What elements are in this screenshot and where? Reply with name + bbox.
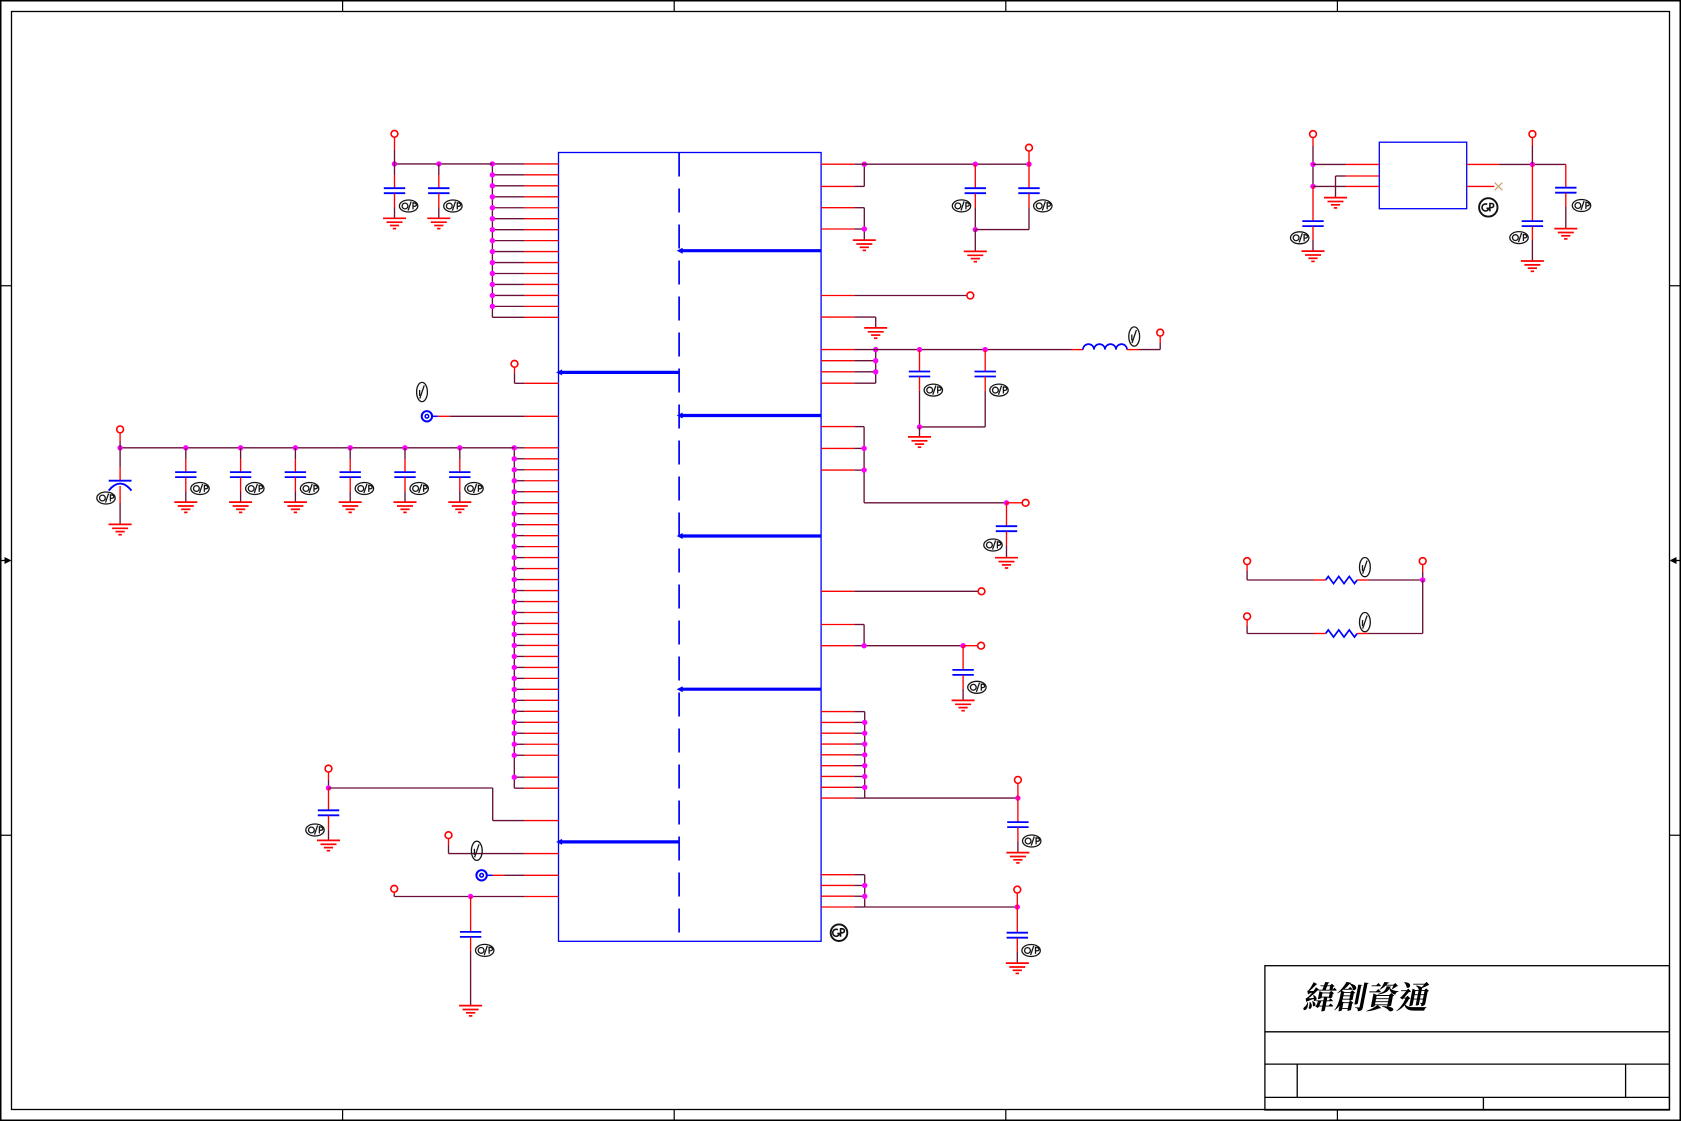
terminal P16 [1529,131,1536,138]
wire VCC3 rail [854,163,1029,165]
junction C3j [873,369,878,374]
terminal P12 [978,642,985,649]
terminal P18 [1419,558,1426,565]
IC U1 section divider [678,153,680,942]
wire U2 input pin 1 [1313,163,1379,165]
terminal P5 [445,832,452,839]
capacitor C17 [952,646,973,701]
label C22 [1572,200,1590,212]
wire C14 gnd drop [919,427,921,437]
capacitor C3 (polarized) [109,448,132,525]
ground C1 [383,218,406,228]
junction D1 [861,446,866,451]
terminal P11 [978,588,985,595]
wire bus right H [854,875,1017,907]
wire C12 gnd drop [974,230,976,252]
terminal P14 [1014,886,1021,893]
label C18 [1022,835,1040,847]
wire P5 to pin [449,839,525,854]
ground C14 [908,437,931,447]
capacitor C22 [1555,164,1576,228]
junction C14 gnd [917,424,922,429]
label C1 [399,200,417,212]
wire VCC2 rail [120,447,514,449]
IC U1 body [559,153,822,942]
junction C1j [873,347,878,352]
junction A1 [862,162,867,167]
terminal P15 [1310,131,1317,138]
IC U1 left pin y875 [525,874,559,876]
wire U2 NC pin [1467,185,1495,187]
wire P7 drop [1028,151,1030,164]
wire net A to pin [329,788,525,821]
capacitor C6 [285,448,306,502]
junction P4 [326,785,331,790]
ground C10 [317,840,340,850]
IC U1 right pin y317 [821,316,854,318]
resistor R2 [1326,630,1357,637]
capacitor C8 [394,448,415,502]
ground net C [864,328,887,338]
junction G-C18 [1015,795,1020,800]
capacitor C5 [230,448,251,502]
wire net B [854,295,967,297]
label C21 [1510,232,1528,244]
terminal P8 [967,292,974,299]
ground C7 [339,502,362,512]
wire C16 to P10 [1007,502,1023,504]
ground C19 [1006,963,1029,973]
IC U1 left pin y896 [525,896,559,898]
ground U2 [1324,198,1347,208]
wire C18 to P13 [1017,783,1019,798]
ground C4 [174,502,197,512]
IC U1 internal bus line 3 (right col) [677,413,821,419]
capacitor C7 [340,448,361,502]
terminal P2 [117,426,124,433]
label GP2 [1479,198,1497,216]
frame center arrow right [1670,557,1681,564]
ground C8 [394,502,417,512]
wire U2 output [1467,163,1566,165]
label C17 [968,681,986,693]
junction A2 [862,226,867,231]
label C2 [444,200,462,212]
IC U1 right pins group F [821,625,854,646]
wire VCC4 rail [854,349,1083,351]
terminal P6 [391,885,398,892]
junction C12-C13 [973,227,978,232]
wire P17 to R1 [1247,565,1326,581]
label L1 [1129,327,1140,346]
IC U1 right pins group H [821,875,854,907]
IC U1 right pins group A [821,164,854,229]
IC U1 left pin block 1 stubs [492,164,558,317]
junctions left block 2 [512,445,517,780]
wire C12-C13 bottom [975,229,1029,231]
junction C2j [873,358,878,363]
wire TG1 to pin [432,415,524,417]
frame center arrow left [1,557,12,564]
label GP1 [831,924,848,941]
wire C17 to P12 [963,645,978,647]
capacitor C20 [1302,186,1323,251]
label C14 [924,384,942,396]
junction P6-C11 [468,894,473,899]
IC U1 left pin y416 [525,415,559,417]
junction U2 in1 [1310,162,1315,167]
label C15 [990,384,1008,396]
junction D-C16 [1004,500,1009,505]
label C12 [952,200,970,212]
company name text [1303,982,1432,1011]
label C19 [1022,945,1040,957]
junction F1 [861,643,866,648]
capacitor C13 [1018,164,1039,229]
junction VCC3-P7 [1026,162,1031,167]
IC U1 internal bus line 6 (left col) [556,839,679,845]
inductor L1 [1083,344,1127,349]
junction VCC3-C12 [973,162,978,167]
wire bus right D [854,427,1006,503]
IC U1 right pin y295 [821,295,854,297]
IC U1 internal bus line 4 (right col) [677,533,821,539]
junction H-C19 [1015,904,1020,909]
wire P19 to R2 [1247,620,1326,634]
regulator U2 body [1379,142,1466,209]
terminal P17 [1244,558,1251,565]
wire net E [854,590,978,592]
junction VCC4-C15 [983,347,988,352]
title block outline [1265,966,1670,1110]
junction R node [1420,577,1425,582]
IC U1 left pin block 2 stubs [514,448,558,788]
label C20 [1291,232,1309,244]
label C8 [410,483,428,495]
junction VCC4-C14 [917,347,922,352]
IC U1 right pins group C [821,350,854,384]
capacitor C4 [175,448,196,502]
wire P15 drop [1312,138,1314,187]
ground C11 [459,1006,482,1016]
resistor R1 [1326,576,1357,583]
junctions left block 1 [490,161,495,309]
junction H1 [862,883,867,888]
IC U1 internal bus line 2 (left col) [556,369,679,375]
frame ticks left [1,286,12,836]
IC U1 left pin y383 [525,382,559,384]
capacitor C2 [428,164,449,218]
label R2 [1360,613,1371,632]
wire VCC1 rail [395,163,493,165]
no-connect X [1495,183,1503,191]
wire P1 drop [394,137,396,164]
junction VCC1-C1 [392,161,397,166]
wire bus right C [854,350,875,384]
frame ticks top [343,1,1338,12]
wire node drop [1422,580,1424,634]
ground C18 [1006,853,1029,863]
test point TG2 [476,870,486,880]
label C5 [246,483,264,495]
wire R2 to node [1357,633,1423,635]
terminal P9 [1157,329,1164,336]
wire net C to gnd [854,317,875,328]
wire P4 drop [328,772,330,788]
wire bus right A [854,164,864,240]
frame ticks bottom [343,1110,1338,1121]
wire P16 drop [1531,138,1533,165]
wire R1 to node [1357,579,1423,581]
ground C9 [448,502,471,512]
ground C17 [952,700,975,710]
wire C14-C15 bottom [920,426,986,428]
capacitor C10 [318,788,339,840]
capacitor C21 [1522,164,1543,261]
terminal P3 [511,360,518,367]
ground C20 [1302,251,1325,261]
terminal P10 [1022,499,1029,506]
IC U1 right pin y591 [821,590,854,592]
wire C19 to P14 [1016,893,1018,907]
label R1 [1360,558,1371,577]
terminal P19 [1244,613,1251,620]
label C10 [306,824,324,836]
junction F-C17 [960,643,965,648]
wire L1 to P9 [1127,336,1160,350]
label C9 [465,483,483,495]
test point TG1 [422,411,432,421]
label C3 [97,492,115,504]
junction U2 out [1530,162,1535,167]
wire bus left block 1 [491,164,493,317]
wire bus right F [854,625,963,646]
capacitor C12 [965,164,986,229]
label C11 [476,944,494,956]
IC U1 left pin y853 [525,853,559,855]
label C6 [300,483,318,495]
label TG1 [417,382,428,401]
label C7 [355,483,373,495]
wire bus right G [854,712,1018,799]
wire P2 drop [119,433,121,448]
junction D2 [861,467,866,472]
IC U1 left pin y820 [525,820,559,822]
junction VCC1-C2 [436,161,441,166]
capacitor C18 [1007,798,1028,853]
label C4 [191,483,209,495]
capacitor C19 [1007,907,1028,963]
wire TG2 to pin [487,874,525,876]
IC U1 internal bus line 1 (right col) [677,248,821,254]
ground C12 [964,251,987,261]
capacitor C9 [449,448,470,502]
capacitor C1 [384,164,405,218]
junctions right G [862,720,867,790]
IC U1 right pins group G [821,712,854,799]
wire U2 gnd pin 2 [1336,176,1380,198]
label C13 [1034,200,1052,212]
junction H2 [862,894,867,899]
terminal P13 [1015,777,1022,784]
ground C21 [1521,261,1544,271]
ground bus A [853,240,876,250]
ground C2 [427,218,450,228]
IC U1 right pins group D [821,427,854,471]
ground C16 [995,558,1018,568]
wire bus left block 2 [513,448,515,788]
label C16 [984,539,1002,551]
wire P6 to pin [394,892,524,896]
frame ticks right [1670,286,1681,836]
capacitor C11 [460,897,481,1006]
wire P3 to pin [515,367,525,383]
label P5 net [471,841,482,860]
ground C22 [1554,229,1577,239]
capacitor C15 [975,350,996,427]
capacitor C14 [909,350,930,427]
wire U2 input pin 3 [1313,185,1379,187]
ground C3 [109,524,132,534]
terminal P1 [391,130,398,137]
ground C6 [284,502,307,512]
capacitor C16 [996,503,1017,558]
ground C5 [229,502,252,512]
IC U1 internal bus line 5 (right col) [677,686,821,692]
junction U2 in2 [1310,184,1315,189]
wire P18 drop [1422,565,1424,581]
terminal P4 [325,765,332,772]
terminal P7 [1026,144,1033,151]
junctions VCC2 rail [117,445,462,450]
